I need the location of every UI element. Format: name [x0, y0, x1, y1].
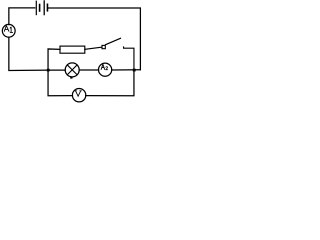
label A2 [101, 64, 108, 69]
wire resistor to switch [85, 47, 102, 49]
battery B1 [36, 1, 47, 15]
wire left node to lamp [48, 69, 65, 71]
node left junction [47, 69, 50, 72]
wire lamp to ammeter A2 [79, 69, 98, 71]
label A1 [4, 26, 12, 33]
node right junction [133, 69, 136, 72]
resistor R [60, 46, 85, 53]
wire riser from left node up to resistor branch [48, 49, 60, 70]
lamp L1 [65, 63, 79, 77]
wire voltmeter loop left side [48, 70, 72, 96]
wire left edge from A1 down to bottom-left corner and right to left node [9, 37, 48, 70]
switch S1 [102, 38, 134, 70]
ammeter A1 [2, 24, 15, 37]
voltmeter V1 [72, 89, 85, 102]
wire A2 to right edge [112, 69, 141, 71]
wire top rail from battery to top-right corner and down right edge [48, 8, 140, 70]
lamp bottom stub [70, 77, 72, 79]
label V [75, 91, 82, 96]
wire top-left from ammeter A1 up to top rail and right to battery [9, 8, 35, 25]
ammeter A2 [99, 63, 112, 76]
wire right junction down and left along bottom to voltmeter [86, 70, 134, 96]
